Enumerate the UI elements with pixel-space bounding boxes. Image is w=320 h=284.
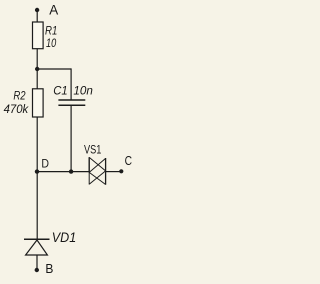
node C <box>119 169 123 173</box>
wire VD1 to node B <box>36 255 38 270</box>
wire D to VS1 <box>37 171 88 173</box>
svg-text:R2: R2 <box>13 89 25 103</box>
junction at C1 branch on D row <box>69 169 73 173</box>
wire VS1 to node C <box>106 171 122 173</box>
resistor R1 <box>33 22 44 49</box>
diode VD1 cathode bar <box>24 238 50 240</box>
svg-text:10: 10 <box>46 36 56 50</box>
wire C1 bottom plate to D row <box>70 106 72 172</box>
svg-text:C1: C1 <box>53 83 67 97</box>
svg-text:VD1: VD1 <box>52 230 76 245</box>
wire R1 to R2 <box>36 49 38 89</box>
capacitor C1 plates <box>58 99 85 101</box>
resistor R2 <box>33 89 44 117</box>
wire A to R1 <box>36 10 38 22</box>
svg-text:10n: 10n <box>73 83 93 97</box>
wire D to VD1 <box>36 172 38 239</box>
junction node R1/R2/C1 <box>35 67 39 71</box>
node A <box>35 8 39 12</box>
svg-text:470k: 470k <box>4 102 29 116</box>
svg-text:B: B <box>45 261 53 276</box>
diac VS1 symbol <box>89 157 105 185</box>
svg-text:C: C <box>125 153 132 168</box>
node B <box>35 268 39 272</box>
wire junction to C1 branch (horizontal) <box>37 68 71 70</box>
diode VD1 triangle <box>26 240 48 255</box>
node D <box>35 169 39 173</box>
svg-text:A: A <box>49 2 58 17</box>
wire down to C1 top plate <box>70 68 72 99</box>
wire R2 to node D <box>36 117 38 172</box>
svg-text:VS1: VS1 <box>84 143 101 157</box>
svg-text:D: D <box>41 157 49 171</box>
